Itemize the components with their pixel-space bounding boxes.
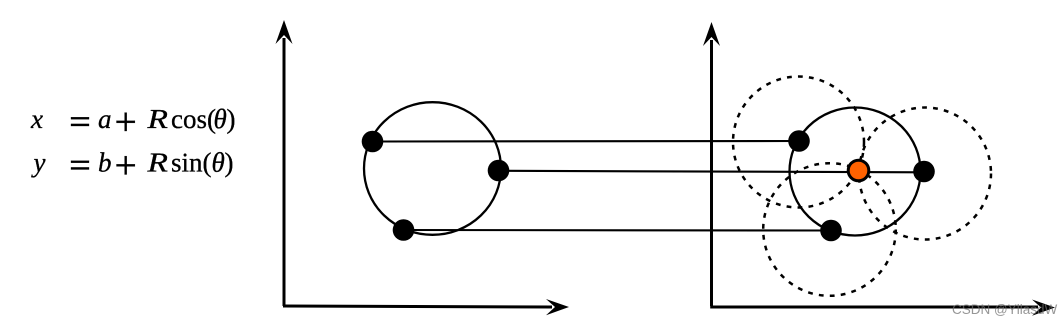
left dot B [488,160,510,182]
wire top: left dot to right-left dot [373,140,800,143]
right y-axis [710,40,713,306]
svg-text:CSDN @YllasdW: CSDN @YllasdW [952,302,1057,317]
left dot A [362,131,384,153]
right y-axis arrowhead [703,22,720,46]
dashed candidate circle around dot F [763,163,896,296]
left data circle [364,102,501,235]
dashed candidate circle around dot D [733,77,864,208]
svg-text:): ) [227,104,236,134]
left y-axis [283,38,286,306]
wire bottom: bottom dots [404,229,832,232]
svg-text:b: b [98,148,112,178]
svg-text:y: y [31,148,46,178]
equation x = a + R cos(theta) [30,104,236,134]
left x-axis arrowhead [546,299,569,315]
svg-text:R: R [146,104,168,134]
svg-text:cos(: cos( [171,104,216,134]
dashed candidate circle around dot E [859,108,991,240]
left dot C [393,219,415,241]
right x-axis [710,306,1038,309]
svg-text:R: R [146,148,168,178]
right data circle [790,108,921,236]
svg-text:): ) [225,148,234,178]
wire middle: left-right dot to right dot through center [499,171,925,173]
right dot D [788,130,810,152]
left y-axis arrowhead [276,20,293,44]
right dot E [913,161,935,183]
svg-text:θ: θ [212,148,225,178]
right dot F [820,220,842,242]
svg-text:x: x [30,104,43,134]
right x-axis arrowhead [1032,300,1055,316]
orange center dot [848,160,869,181]
svg-text:θ: θ [214,104,227,134]
svg-text:a: a [98,104,112,134]
left x-axis [283,306,552,307]
equation y = b + R sin(theta) [31,148,234,178]
svg-text:sin(: sin( [171,148,212,178]
